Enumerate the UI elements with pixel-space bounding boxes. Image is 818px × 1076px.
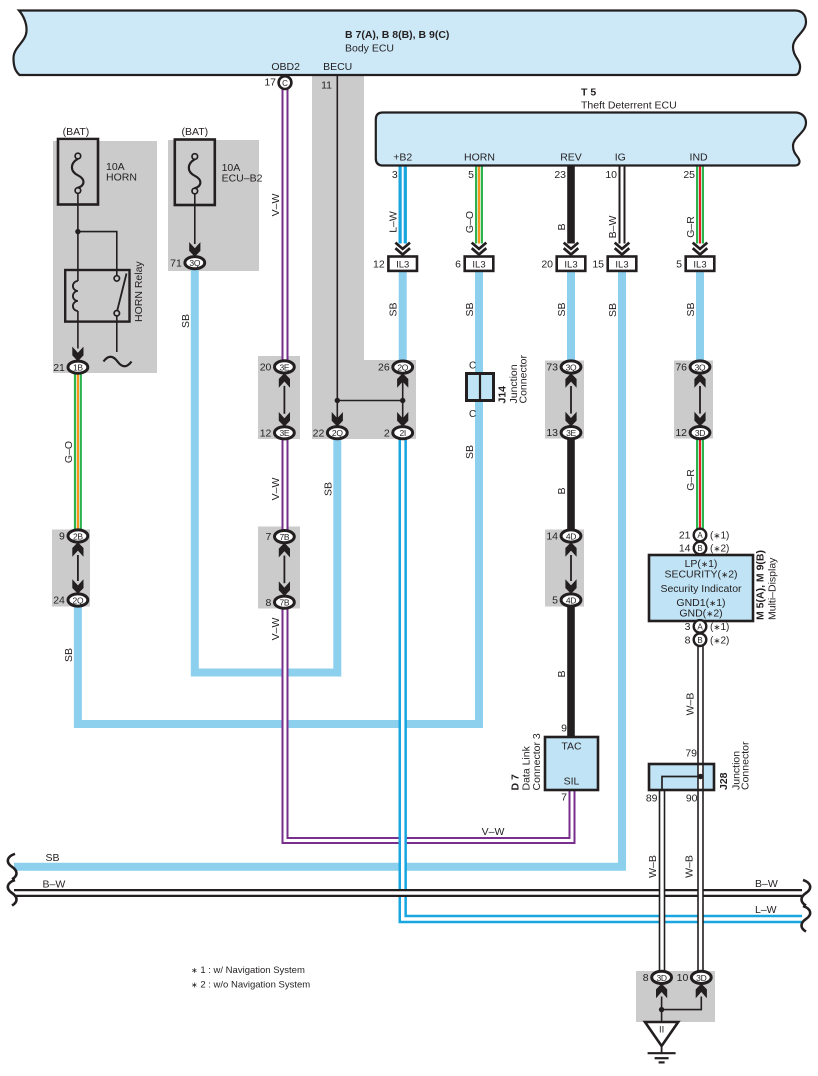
wire W-B from J28 pin 89 to 3D-8 (659, 790, 666, 972)
svg-text:SB: SB (607, 303, 619, 317)
junction dot fuse branch (75, 229, 80, 234)
ground symbol II (645, 1022, 678, 1062)
svg-text:SECURITY(∗2): SECURITY(∗2) (664, 569, 737, 581)
wire branch down to 2Q-22 (336, 401, 338, 427)
svg-text:A: A (697, 623, 703, 632)
svg-text:14: 14 (679, 543, 691, 555)
shaded area 2B-2Q pair block (52, 530, 90, 607)
svg-text:∗ 1 : w/ Navigation System: ∗ 1 : w/ Navigation System (191, 965, 305, 976)
connector B-14 (679, 542, 730, 555)
wire SB from IL3-6 to J14 (475, 270, 483, 375)
svg-text:2: 2 (384, 427, 390, 439)
svg-text:(∗2): (∗2) (710, 635, 729, 646)
svg-text:90: 90 (686, 793, 698, 805)
svg-text:GND(∗2): GND(∗2) (679, 608, 722, 620)
svg-text:REV: REV (560, 151, 582, 163)
shaded area ground connector block (636, 971, 715, 1022)
wire G-R from T5 IND pin 25 (696, 166, 704, 244)
arrows between connectors 7B pair (279, 543, 290, 596)
wire relay contact to horn (116, 316, 118, 352)
J28 border (649, 764, 714, 790)
wire W-B from indicator B to J28 pin 79 (697, 646, 704, 765)
wire SB below IL3-12 (399, 270, 407, 362)
svg-text:SB: SB (322, 482, 334, 496)
junction dot ground (659, 1007, 664, 1012)
svg-text:ECU–B2: ECU–B2 (222, 173, 263, 185)
connector 4D-14 (546, 530, 581, 543)
svg-text:Security Indicator: Security Indicator (660, 583, 742, 595)
svg-text:3Q: 3Q (189, 258, 200, 268)
svg-text:T 5: T 5 (581, 87, 596, 99)
svg-text:7: 7 (266, 531, 272, 543)
svg-text:3D: 3D (656, 973, 666, 983)
svg-text:5: 5 (676, 258, 682, 270)
shaded area 4D pair block (545, 530, 584, 607)
wire ground link left (661, 997, 663, 1023)
svg-text:J28: J28 (718, 772, 730, 790)
svg-text:21: 21 (679, 530, 691, 542)
connector 1B-21 (53, 361, 88, 374)
svg-text:3E: 3E (280, 362, 290, 372)
svg-text:2Q: 2Q (332, 428, 343, 438)
svg-text:7B: 7B (280, 598, 290, 608)
shaded area ECU-B2 fuse block (168, 140, 259, 271)
svg-text:14: 14 (546, 531, 558, 543)
shaded area horn relay block (53, 141, 157, 373)
svg-text:11: 11 (321, 79, 332, 91)
connector 3E-13 (546, 427, 581, 440)
svg-text:17: 17 (264, 77, 276, 89)
svg-text:IL3: IL3 (693, 259, 706, 270)
svg-text:OBD2: OBD2 (271, 61, 300, 73)
security indicator (multi-display) (649, 550, 779, 621)
svg-text:3: 3 (685, 621, 691, 633)
wire ECU-B2 fuse to 3Q-71 (194, 194, 196, 244)
svg-text:L–W: L–W (388, 211, 400, 233)
wire B from 3E-13 to 4D-14 (567, 438, 575, 531)
svg-text:8: 8 (685, 634, 691, 646)
svg-text:Theft Deterrent ECU: Theft Deterrent ECU (581, 100, 677, 112)
wire SB below IL3-20 (567, 270, 575, 362)
junction dot BECU branch left (335, 398, 340, 403)
svg-text:II: II (659, 1025, 664, 1036)
W-B pass-through inside J28 (697, 764, 704, 790)
svg-text:20: 20 (541, 258, 553, 270)
arrows between connectors 2B-2Q pair (72, 542, 83, 594)
connector IL3-12 (373, 243, 417, 271)
svg-text:IL3: IL3 (472, 259, 485, 270)
connector 2Q-26 (378, 361, 413, 374)
svg-text:21: 21 (53, 362, 65, 374)
svg-text:IL3: IL3 (564, 259, 577, 270)
connector 3D-12 (675, 427, 710, 440)
svg-text:B–W: B–W (43, 879, 66, 891)
svg-text:G–R: G–R (685, 469, 697, 491)
wire B-W bus (14, 889, 802, 897)
bus end squiggle B-W right (802, 880, 811, 906)
J14 junction connector (467, 355, 530, 420)
svg-text:W–B: W–B (684, 855, 696, 878)
svg-text:2Q: 2Q (397, 363, 408, 373)
svg-text:24: 24 (53, 595, 65, 607)
connector IL3-15 (592, 243, 636, 271)
arrow into 3D-10 (696, 984, 707, 999)
svg-text:C: C (469, 409, 476, 420)
fuse 10A ECU-B2 (175, 126, 263, 205)
Body ECU (top banner) (14, 11, 807, 76)
svg-text:B–W: B–W (607, 216, 619, 239)
svg-text:73: 73 (546, 362, 558, 374)
svg-text:TAC: TAC (561, 741, 582, 753)
svg-text:L–W: L–W (755, 904, 777, 916)
wire V-W from 3E-12 to 7B-7 (282, 438, 289, 531)
continuation squiggle (to horn) (104, 357, 132, 367)
wire B from 4D-5 to D7 TAC (567, 606, 575, 737)
arrow into 3D-8 (656, 984, 667, 999)
svg-text:B: B (556, 670, 568, 677)
shaded area 3E pair block (258, 356, 300, 439)
arrow into 2I-2 (397, 412, 408, 427)
svg-text:9: 9 (59, 531, 65, 543)
svg-text:G–O: G–O (63, 441, 75, 463)
wire HORN fuse to relay coil (77, 193, 79, 270)
connector 3Q-76 (675, 361, 710, 374)
svg-text:89: 89 (646, 793, 658, 805)
svg-text:26: 26 (378, 362, 390, 374)
svg-text:10: 10 (605, 169, 617, 181)
svg-text:12: 12 (675, 427, 687, 439)
svg-text:12: 12 (373, 258, 385, 270)
svg-text:V–W: V–W (270, 478, 282, 501)
svg-text:HORN Relay: HORN Relay (133, 261, 145, 322)
wire B-W from T5 IG pin 10 (619, 166, 626, 244)
svg-text:9: 9 (561, 723, 567, 735)
svg-text:W–B: W–B (685, 693, 697, 716)
shaded area BECU connector block (312, 360, 416, 439)
wire SB bus from IL3-15 (14, 270, 622, 867)
svg-text:∗ 2 : w/o Navigation System: ∗ 2 : w/o Navigation System (191, 980, 310, 991)
svg-text:IND: IND (690, 151, 709, 163)
bus end squiggle SB left (8, 854, 17, 880)
svg-text:Multi–Display: Multi–Display (767, 557, 779, 620)
svg-text:13: 13 (546, 427, 558, 439)
connector IL3-20 (541, 243, 585, 271)
wire branch up to 2Q-26 (402, 373, 404, 400)
svg-text:6: 6 (455, 258, 461, 270)
svg-text:B 7(A), B 8(B), B 9(C): B 7(A), B 8(B), B 9(C) (345, 29, 449, 41)
svg-text:W–B: W–B (647, 855, 659, 878)
wire BECU output (336, 76, 338, 401)
connector 3Q-71 (170, 257, 205, 270)
svg-text:22: 22 (313, 427, 325, 439)
wire SB from 2Q-24 to J14 (horn circuit) (78, 400, 479, 725)
svg-text:+B2: +B2 (393, 151, 412, 163)
connector 3D-8 (643, 971, 672, 984)
svg-text:(∗2): (∗2) (710, 544, 729, 555)
wire B from T5 REV pin 23 (567, 166, 575, 244)
svg-text:3Q: 3Q (566, 362, 577, 372)
svg-text:(BAT): (BAT) (63, 126, 90, 138)
svg-text:7B: 7B (280, 532, 290, 542)
connector 3E-20 (260, 361, 295, 374)
svg-text:SB: SB (63, 648, 75, 662)
connector A-3 (685, 620, 730, 633)
svg-text:3: 3 (392, 169, 398, 181)
D7 data link connector 3 (510, 723, 599, 804)
connector 3D-10 (677, 971, 712, 984)
svg-text:SB: SB (556, 302, 568, 316)
svg-text:2Q: 2Q (73, 595, 84, 605)
arrow into 2Q-26 (397, 373, 408, 388)
wire G-O from 1B-21 to 2B-9 (74, 372, 82, 531)
svg-text:Connector: Connector (740, 741, 752, 790)
wire V-W from OBD2 to 3E-20 (282, 88, 289, 362)
svg-text:7: 7 (561, 792, 567, 804)
horn relay (65, 261, 145, 322)
svg-text:HORN: HORN (464, 151, 495, 163)
svg-text:2I: 2I (399, 428, 406, 438)
svg-text:10: 10 (677, 972, 689, 984)
svg-text:3E: 3E (280, 428, 290, 438)
Theft Deterrent ECU T5 banner (376, 87, 806, 166)
svg-text:Connector 3: Connector 3 (531, 733, 543, 790)
svg-text:3D: 3D (695, 428, 705, 438)
arrows between connectors 3Q-3E pair (565, 373, 576, 426)
svg-text:SIL: SIL (564, 776, 580, 788)
bus end squiggle L-W right (802, 906, 811, 932)
connector IL3-5 (676, 243, 714, 271)
arrow into 2Q-22 (332, 412, 343, 427)
junction dot BECU branch right (400, 398, 405, 403)
wire W-B through J28 pin 90 to 3D-10 (697, 764, 704, 972)
svg-text:V–W: V–W (482, 826, 505, 838)
svg-text:SB: SB (464, 445, 476, 459)
svg-text:8: 8 (266, 597, 272, 609)
svg-text:1B: 1B (73, 363, 83, 373)
svg-text:G–O: G–O (464, 211, 476, 233)
svg-text:J14: J14 (497, 386, 509, 404)
connector 3Q-73 (546, 361, 581, 374)
svg-text:3E: 3E (566, 428, 576, 438)
arrows between connectors 3E pair (279, 373, 290, 427)
connector C-17 (OBD2) (264, 76, 291, 89)
arrow into 3Q-71 (189, 242, 200, 257)
svg-text:20: 20 (260, 362, 272, 374)
arrows between connectors 4D pair (565, 542, 576, 594)
svg-text:23: 23 (554, 169, 566, 181)
svg-text:V–W: V–W (270, 194, 282, 217)
svg-text:M 5(A), M 9(B): M 5(A), M 9(B) (755, 550, 767, 620)
svg-text:B: B (556, 223, 568, 230)
connector 3E-12 (260, 427, 295, 440)
svg-text:5: 5 (468, 169, 474, 181)
wire ground link right (662, 997, 702, 1010)
bus end squiggle B-W left (8, 880, 17, 906)
svg-text:IG: IG (615, 151, 626, 163)
wire relay coil to 1B-21 (77, 322, 79, 349)
J28 junction connector (43, 169, 778, 1062)
svg-text:(∗1): (∗1) (710, 622, 729, 633)
svg-text:25: 25 (683, 169, 695, 181)
connector B-8 (685, 633, 730, 646)
svg-text:IL3: IL3 (615, 259, 628, 270)
connector 2Q-22 (313, 427, 348, 440)
wire L-W from 2I-2 to bus (403, 438, 802, 919)
svg-text:76: 76 (675, 362, 687, 374)
svg-text:71: 71 (170, 257, 182, 269)
connector 4D-5 (552, 594, 581, 607)
wire branch down to 2I-2 (402, 401, 404, 427)
svg-text:3D: 3D (696, 973, 706, 983)
svg-text:5: 5 (552, 595, 558, 607)
svg-text:(∗1): (∗1) (710, 531, 729, 542)
svg-text:A: A (697, 531, 703, 540)
wire V-W from 7B-8 to D7 SIL (285, 608, 572, 841)
shaded area 7B pair block (258, 527, 300, 609)
svg-text:B–W: B–W (755, 878, 778, 890)
svg-text:C: C (282, 79, 288, 88)
svg-text:B: B (697, 636, 702, 645)
shaded area BECU band (312, 74, 364, 360)
connector A-21 (679, 529, 730, 542)
svg-text:8: 8 (643, 972, 649, 984)
svg-text:SB: SB (388, 302, 400, 316)
svg-text:(BAT): (BAT) (181, 126, 208, 138)
shaded area 3Q-3E pair block (545, 361, 584, 439)
wire SB from ECU-B2 fuse 3Q to BECU 2Q (U-shape) (195, 268, 337, 673)
svg-text:IL3: IL3 (396, 259, 409, 270)
svg-text:B: B (697, 544, 702, 553)
arrows between connectors 3Q-3D pair (694, 373, 705, 426)
wire L-W from T5 +B2 pin 3 (399, 166, 407, 244)
connector 7B-8 (266, 596, 295, 609)
svg-text:SB: SB (180, 314, 192, 328)
svg-text:G–R: G–R (685, 216, 697, 238)
svg-text:Connector: Connector (518, 355, 530, 404)
wire SB below IL3-5 (696, 270, 704, 362)
svg-text:79: 79 (685, 748, 697, 760)
wire BECU branch to 2Q-26 and 2I-2 (337, 400, 402, 402)
wire fuse branch to relay contact (78, 232, 117, 270)
connector 2Q-24 (53, 594, 88, 607)
svg-text:4D: 4D (566, 595, 576, 605)
svg-text:V–W: V–W (270, 618, 282, 641)
svg-text:4D: 4D (566, 531, 576, 541)
svg-text:15: 15 (592, 258, 604, 270)
svg-text:12: 12 (260, 427, 272, 439)
fuse 10A HORN (58, 126, 137, 205)
connector IL3-6 (455, 243, 493, 271)
svg-text:B: B (556, 487, 568, 494)
svg-text:SB: SB (685, 302, 697, 316)
wire G-R from 3D-12 to indicator (696, 438, 704, 529)
svg-text:SB: SB (46, 852, 60, 864)
svg-text:C: C (469, 361, 476, 372)
svg-text:SB: SB (464, 302, 476, 316)
arrow into 1B-21 (72, 347, 83, 362)
wire G-O from T5 HORN pin 5 (475, 166, 483, 244)
svg-text:2B: 2B (73, 531, 83, 541)
connector 2I-2 (384, 427, 413, 440)
svg-text:HORN: HORN (106, 172, 137, 184)
svg-text:BECU: BECU (323, 61, 352, 73)
connector 2B-9 (59, 530, 88, 543)
shaded area 3Q-3D pair block (674, 361, 713, 439)
svg-text:Body ECU: Body ECU (345, 43, 394, 55)
svg-text:3Q: 3Q (695, 362, 706, 372)
connector 7B-7 (266, 531, 295, 544)
